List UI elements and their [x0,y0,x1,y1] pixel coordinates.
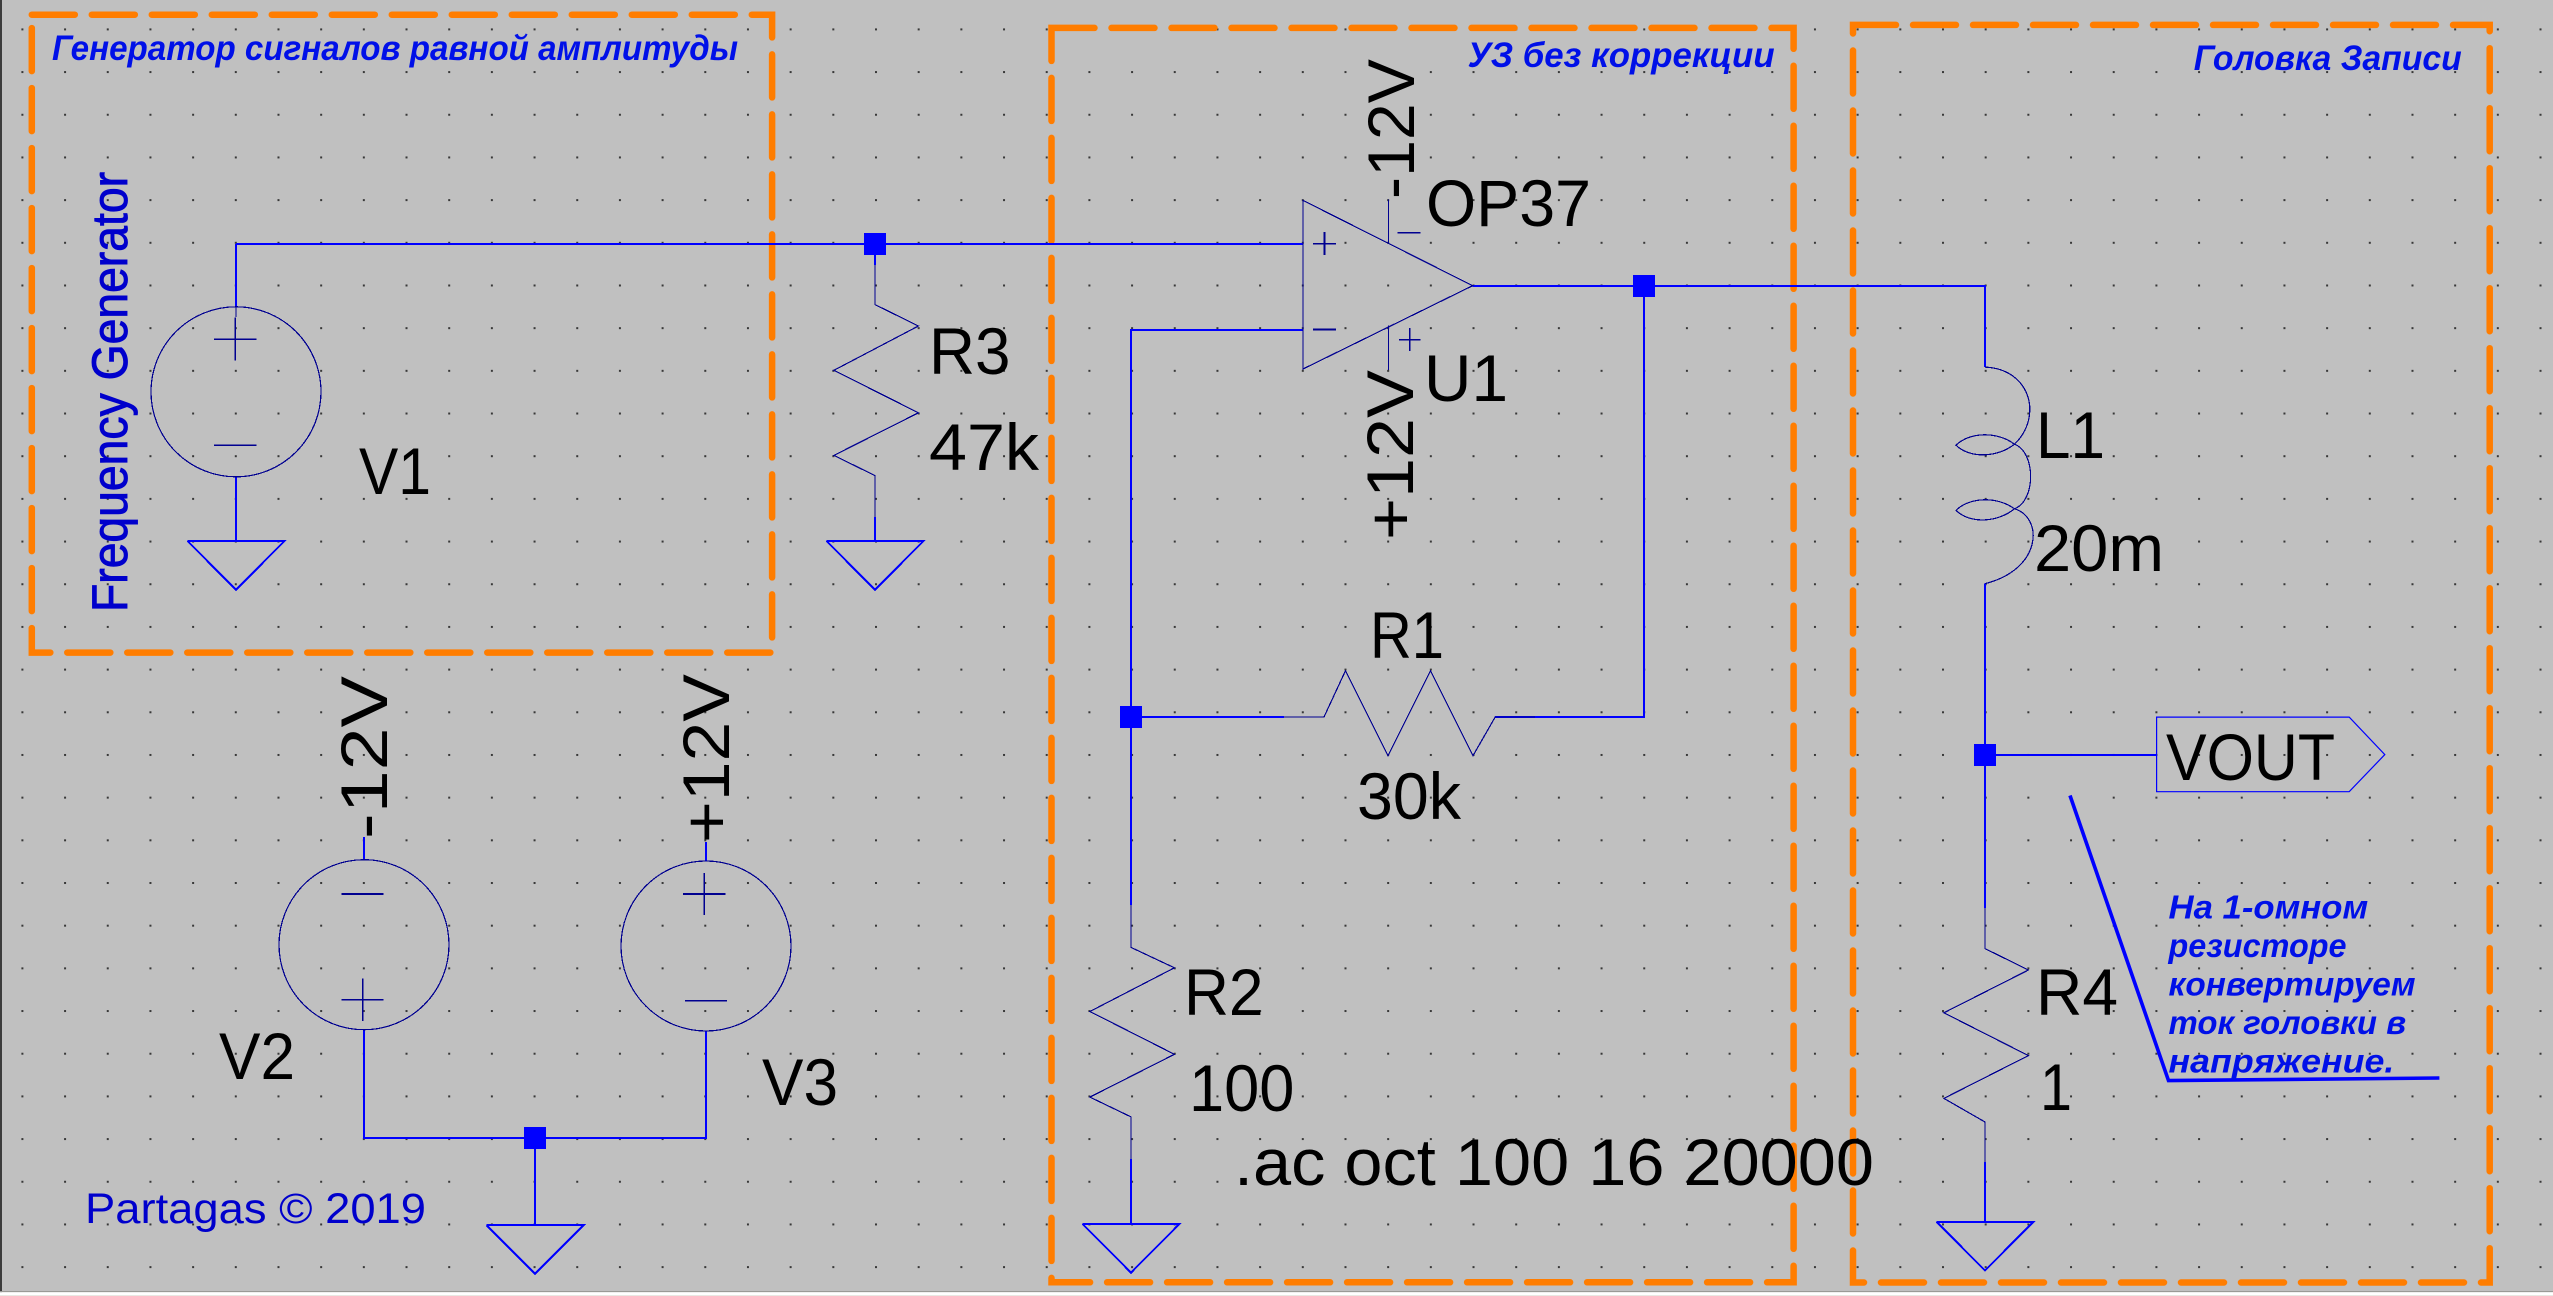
svg-text:+12V: +12V [1353,370,1427,540]
svg-text:OP37: OP37 [1426,166,1591,240]
svg-text:+12V: +12V [669,674,743,843]
svg-text:20m: 20m [2034,511,2164,585]
svg-text:U1: U1 [1424,341,1508,415]
svg-text:резисторе: резисторе [2168,927,2347,964]
svg-text:VOUT: VOUT [2166,720,2335,794]
svg-text:30k: 30k [1357,759,1462,833]
svg-text:конвертируем: конвертируем [2169,966,2416,1003]
svg-text:R3: R3 [929,314,1011,388]
svg-text:R4: R4 [2036,955,2118,1029]
svg-text:.ac oct 100 16 20000: .ac oct 100 16 20000 [1234,1125,1874,1199]
svg-text:-12V: -12V [1354,59,1428,199]
svg-text:R1: R1 [1370,598,1444,672]
svg-text:V2: V2 [219,1019,295,1093]
svg-text:47k: 47k [929,410,1040,484]
svg-text:Головка Записи: Головка Записи [2194,39,2462,78]
svg-text:R2: R2 [1184,955,1264,1029]
svg-text:Frequency Generator: Frequency Generator [82,172,138,612]
svg-text:V1: V1 [359,434,431,508]
svg-text:-12V: -12V [327,676,401,839]
svg-text:V3: V3 [762,1045,838,1119]
svg-text:ток головки в: ток головки в [2169,1004,2407,1041]
svg-text:Генератор сигналов равной ампл: Генератор сигналов равной амплитуды [52,29,738,68]
svg-text:напряжение.: напряжение. [2169,1043,2395,1080]
svg-text:На 1-омном: На 1-омном [2169,889,2369,926]
svg-text:L1: L1 [2036,398,2105,472]
svg-text:1: 1 [2040,1050,2072,1124]
svg-text:Partagas © 2019: Partagas © 2019 [85,1185,426,1233]
svg-text:УЗ без коррекции: УЗ без коррекции [1468,36,1775,75]
svg-text:100: 100 [1189,1051,1294,1125]
